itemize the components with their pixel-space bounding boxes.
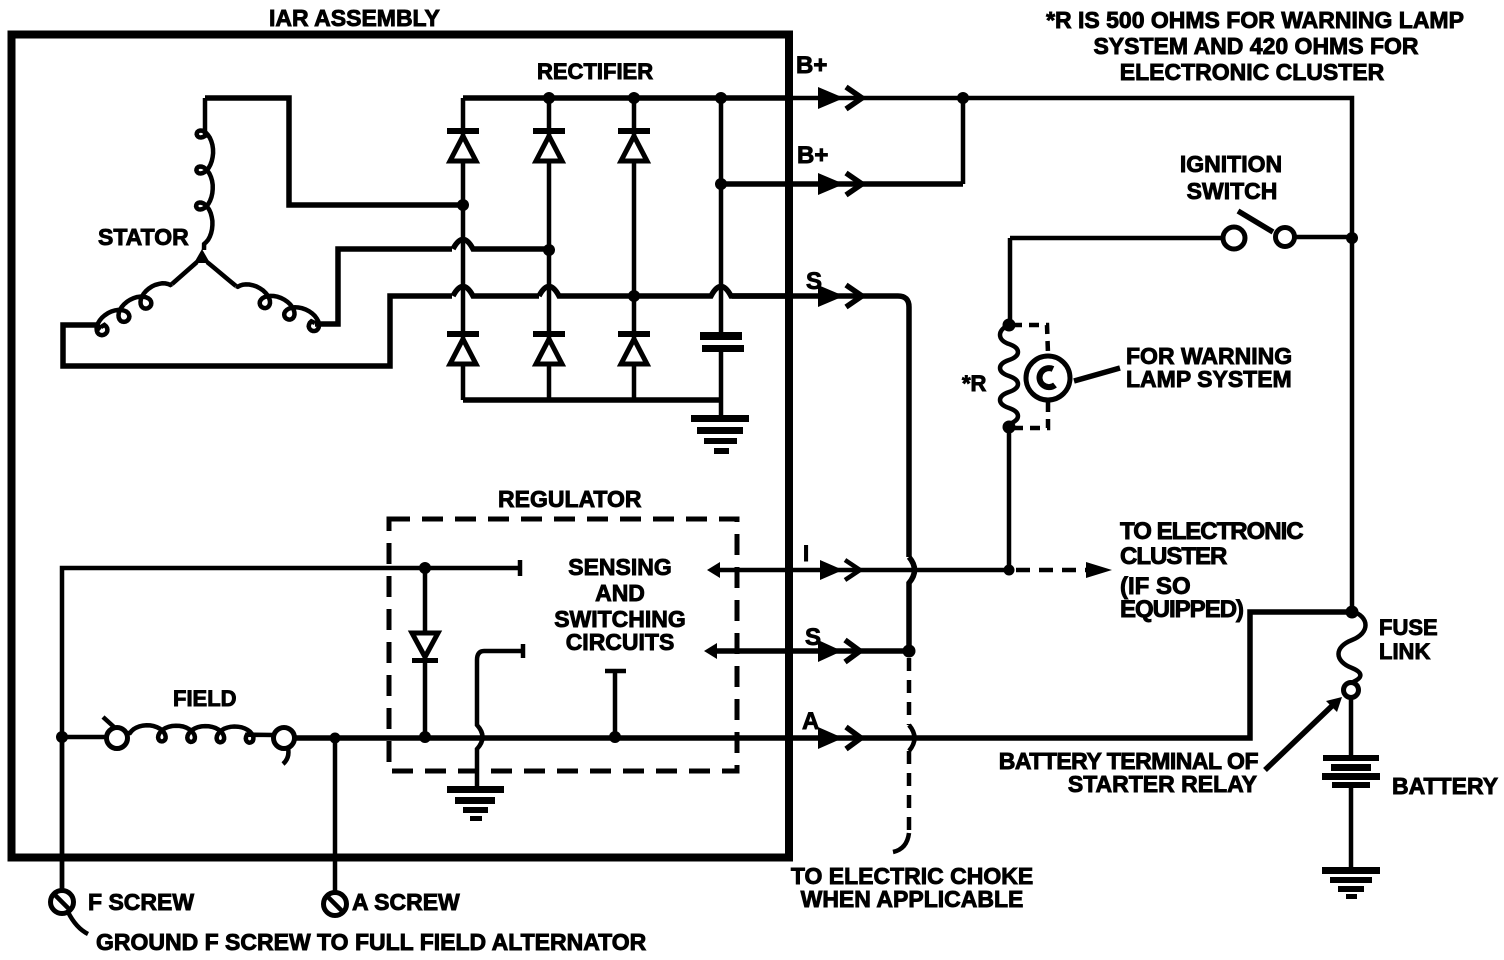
wire hop y296 over column1 [453,287,539,297]
battery [1322,755,1380,867]
rectifier column 4 wire [719,98,724,332]
svg-text:LAMP SYSTEM: LAMP SYSTEM [1126,366,1292,392]
svg-text:RECTIFIER: RECTIFIER [537,59,653,84]
wire S regulator output [716,648,909,654]
dashed wire electric choke [907,658,912,725]
regulator dashed box [389,519,737,771]
pointer battery terminal [1265,697,1342,770]
terminal arrow-in I [707,562,720,578]
svg-text:AND: AND [595,580,645,606]
svg-text:EQUIPPED): EQUIPPED) [1120,596,1243,623]
IAR assembly box [12,35,790,858]
wire B+ second output [721,181,963,187]
rectifier bottom bus [463,397,721,403]
svg-text:F SCREW: F SCREW [88,889,194,915]
dashed wire electric choke lower [907,751,912,833]
terminal fuse circle [1344,683,1359,698]
svg-text:A SCREW: A SCREW [352,889,460,915]
hook choke line end [893,833,909,852]
node diode-field junction [419,731,431,743]
svg-text:GROUND F SCREW TO FULL FIELD A: GROUND F SCREW TO FULL FIELD ALTERNATOR [96,929,647,955]
wire regulator ground leg [477,651,523,786]
svg-text:BATTERY: BATTERY [1392,773,1498,799]
wire S rectifier output [732,296,909,557]
wire ignition switch feed [1010,237,1352,238]
diode D2 upper [533,128,565,161]
wire hop choke over A line [909,725,915,751]
svg-text:*R IS 500 OHMS FOR WARNING LAM: *R IS 500 OHMS FOR WARNING LAMP [1046,7,1464,33]
capacitor C1 [700,332,744,415]
node fuse junction [1346,606,1359,619]
wire I output [719,568,1009,573]
terminal arrow B+ second [818,173,862,195]
wire A screw drop [333,738,338,892]
svg-text:ELECTRONIC CLUSTER: ELECTRONIC CLUSTER [1120,59,1385,85]
terminal arrow A [818,727,861,749]
wire hop S-vertical over I line [909,557,915,651]
diode D4 lower [447,331,479,364]
stator winding right (coil) [207,262,236,286]
pointer F screw to note [68,912,88,934]
svg-text:LINK: LINK [1379,639,1430,664]
terminal arrow electronic cluster [1086,562,1112,578]
wire sense line [62,568,520,890]
terminal tick sense line [518,560,523,576]
svg-text:STARTER RELAY: STARTER RELAY [1068,771,1257,797]
wire hop y249 over column1 [453,240,549,250]
node A-screw junction [330,733,341,744]
ground regulator [447,786,504,821]
svg-text:FIELD: FIELD [173,686,237,711]
terminal tick ground leg [521,644,526,658]
stator winding top (coil) [196,131,213,251]
wire field line left [62,735,106,740]
svg-text:SENSING: SENSING [568,554,672,580]
node resistor top [1003,319,1016,332]
pointer to lamp [1074,368,1120,381]
terminal A screw [324,893,347,916]
svg-text:IGNITION: IGNITION [1180,151,1282,177]
terminal field left circle [103,717,128,749]
wire hop y296 over column2 [539,287,634,297]
stator winding left (coil) [172,262,197,284]
diode D1 upper [447,128,479,161]
wire stator left branch to rectifier S bus [63,296,452,366]
svg-text:STATOR: STATOR [98,224,189,250]
wire stator right branch to rectifier diode 2 [315,249,452,324]
wire field line to A output [295,612,1352,738]
node sense-diode junction [419,562,431,574]
terminal arrow I [820,560,860,580]
terminal T-stub [605,671,626,737]
junction dots rectifier [457,199,469,211]
terminal arrow-in S [704,643,717,659]
node S junction [903,645,916,658]
terminal arrow S reg [818,640,860,662]
svg-text:I: I [803,541,809,566]
wire fuse to battery [1349,698,1354,756]
svg-text:B+: B+ [797,142,828,169]
svg-text:CIRCUITS: CIRCUITS [566,629,675,655]
dashed lamp bracket bottom [1012,402,1048,428]
node B+ junction [957,92,969,104]
svg-text:REGULATOR: REGULATOR [498,486,642,512]
dashed lamp bracket top [1012,325,1048,354]
wire B+ top output [721,98,1352,611]
diode regulator [412,568,438,737]
svg-text:*R: *R [962,371,987,396]
wire lamp leg down to I line [1007,427,1012,570]
svg-text:B+: B+ [796,52,827,79]
ground rectifier [691,415,749,454]
svg-text:S: S [805,624,821,651]
terminal arrow B+ top [818,87,862,109]
switch ignition [1223,211,1295,249]
svg-text:SWITCH: SWITCH [1187,178,1278,204]
diode D6 lower [618,331,650,364]
node I-lamp junction [1004,565,1015,576]
rectifier column 1 wire [461,98,466,400]
svg-text:CLUSTER: CLUSTER [1120,543,1227,570]
node Y-center of stator [194,249,210,263]
terminal F screw [51,891,74,914]
dashed wire to electronic cluster [1016,568,1086,573]
node T-stub junction [609,731,621,743]
diode D5 lower [533,331,565,364]
node sense-field-Fscrew junction [56,731,68,743]
svg-text:FUSE: FUSE [1379,615,1438,640]
resistor *R [1000,325,1018,427]
node switch-bus junction [1346,232,1358,244]
svg-text:IAR ASSEMBLY: IAR ASSEMBLY [269,5,440,31]
ground battery [1322,867,1380,899]
lamp warning [1026,356,1070,400]
wire F screw drop [60,737,65,890]
rectifier column 2 wire [547,98,552,400]
node resistor bottom [1003,421,1016,434]
diode D3 upper [618,128,650,161]
wire resistor drop [1008,238,1013,325]
rectifier column 3 wire [632,98,637,400]
svg-text:S: S [806,268,822,295]
svg-text:SYSTEM AND 420 OHMS FOR: SYSTEM AND 420 OHMS FOR [1093,33,1418,59]
rectifier top bus [463,95,789,101]
svg-text:A: A [802,708,819,735]
svg-text:WHEN APPLICABLE: WHEN APPLICABLE [801,886,1024,912]
field coil [128,725,273,742]
terminal arrow S rect [818,285,862,307]
svg-text:TO ELECTRONIC: TO ELECTRONIC [1120,518,1303,545]
wire hop y296 over column4 [634,287,789,297]
fuse link [1339,611,1366,682]
wire stator top branch to rectifier diode 1 [205,98,463,205]
terminal field right circle [274,728,295,765]
